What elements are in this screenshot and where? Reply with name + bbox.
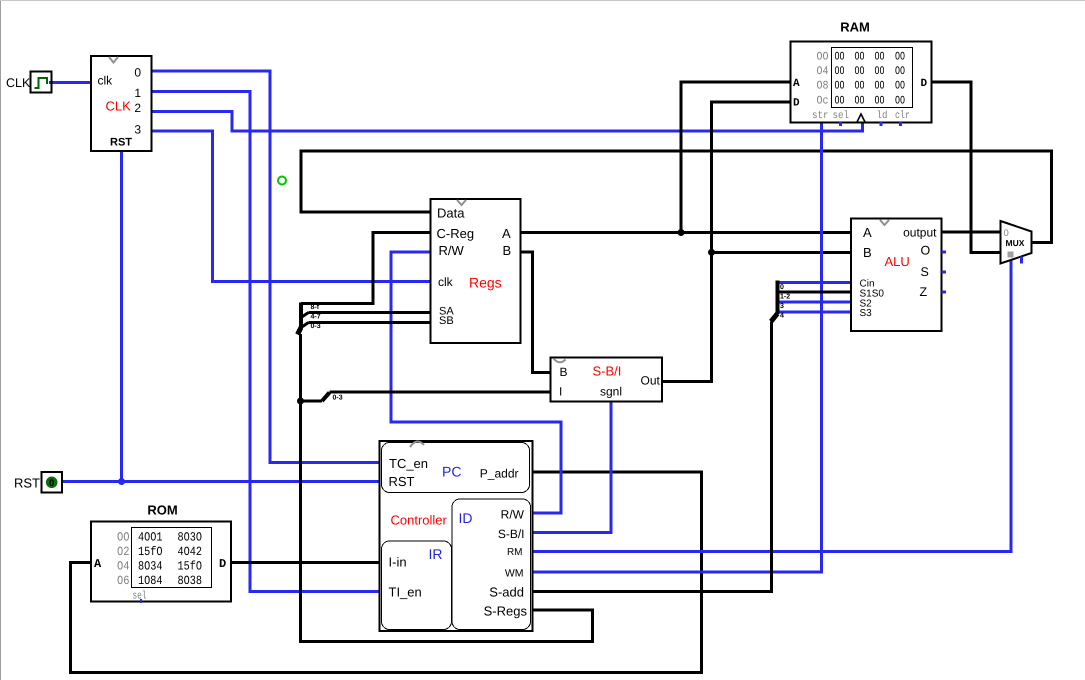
svg-text:A: A xyxy=(793,78,800,90)
wire ALU splitter branch 1-2 to ALU S1S0 xyxy=(778,291,852,294)
svg-text:0: 0 xyxy=(1004,228,1009,239)
ALU U-ALU xyxy=(851,219,946,332)
svg-text:A: A xyxy=(863,225,872,240)
svg-text:0: 0 xyxy=(134,66,141,80)
svg-text:OO: OO xyxy=(895,51,905,64)
ROM U-ROM xyxy=(91,503,231,604)
svg-text:OO: OO xyxy=(895,65,905,78)
svg-text:OO: OO xyxy=(835,80,845,93)
svg-text:Z: Z xyxy=(920,285,928,299)
svg-text:ID: ID xyxy=(459,510,473,526)
svg-text:O: O xyxy=(921,244,931,258)
wire splitter branch 4-7 to Regs SA xyxy=(309,311,431,314)
svg-text:Oc: Oc xyxy=(817,95,829,108)
input pin RST xyxy=(14,472,62,493)
svg-text:OO: OO xyxy=(855,95,865,108)
multiplexer MUX xyxy=(1001,221,1032,264)
wire CLK phase1 to Controller TI_en xyxy=(152,92,380,592)
svg-text:OO: OO xyxy=(875,80,885,93)
svg-text:P_addr: P_addr xyxy=(480,467,519,481)
wire Controller RM to MUX select xyxy=(533,260,1012,552)
RAM U-RAM xyxy=(791,20,932,127)
svg-text:RST: RST xyxy=(389,474,415,489)
clock source CLK xyxy=(6,72,52,93)
svg-text:0: 0 xyxy=(49,478,54,489)
canvas top border xyxy=(0,0,1085,2)
svg-text:A: A xyxy=(94,557,102,571)
svg-text:RAM: RAM xyxy=(840,20,870,35)
wire Regs A branch to RAM A xyxy=(681,82,791,233)
wire Controller R_W to Regs R_W xyxy=(391,252,561,513)
splitter S-Regs head xyxy=(298,303,321,335)
svg-text:OO: OO xyxy=(817,51,829,64)
svg-text:clr: clr xyxy=(895,110,910,122)
svg-text:OO: OO xyxy=(835,65,845,78)
svg-text:ROM: ROM xyxy=(147,503,177,518)
wire ALU splitter branch 3 to ALU S2 xyxy=(778,301,852,304)
svg-text:S3: S3 xyxy=(860,308,873,319)
svg-text:OO: OO xyxy=(895,95,905,108)
svg-text:PC: PC xyxy=(442,464,461,480)
wire CLK phase2 to RAM clock caret xyxy=(152,112,863,132)
svg-text:O4: O4 xyxy=(117,560,130,574)
svg-text:RST: RST xyxy=(14,476,40,491)
splitter ALU control head xyxy=(771,281,790,322)
svg-text:O4: O4 xyxy=(817,65,829,78)
svg-text:O6: O6 xyxy=(117,574,130,588)
wire Controller S-B_I to S-B/I sgnl xyxy=(533,402,612,533)
wire ALU output to MUX input 0 xyxy=(942,231,1001,234)
node junction S-B/I Out / ALU B xyxy=(708,249,715,256)
svg-text:A: A xyxy=(502,226,511,241)
svg-text:O2: O2 xyxy=(117,545,130,559)
svg-text:OO: OO xyxy=(835,51,845,64)
register file Regs xyxy=(431,199,521,343)
splitter2 tap head xyxy=(322,393,343,402)
wire splitter branch 8-f to Regs C-Reg xyxy=(301,233,431,304)
svg-text:O8: O8 xyxy=(817,80,829,93)
svg-text:clk: clk xyxy=(98,74,114,88)
svg-text:8O34: 8O34 xyxy=(138,560,163,574)
svg-text:S: S xyxy=(921,265,929,279)
svg-text:3: 3 xyxy=(134,123,141,137)
svg-text:B: B xyxy=(503,243,512,258)
svg-text:OO: OO xyxy=(855,65,865,78)
svg-text:S-B/I: S-B/I xyxy=(498,527,525,541)
svg-text:15fO: 15fO xyxy=(178,560,203,574)
svg-text:1-2: 1-2 xyxy=(780,294,790,301)
svg-text:S-add: S-add xyxy=(489,585,524,600)
svg-text:8-f: 8-f xyxy=(311,303,320,311)
svg-text:I-in: I-in xyxy=(389,555,407,570)
svg-text:1: 1 xyxy=(134,86,141,100)
wire CLK phase3 to Regs clk xyxy=(152,131,431,282)
wire ALU splitter branch 0 to ALU Cin xyxy=(778,281,852,284)
svg-text:0-3: 0-3 xyxy=(311,323,321,330)
svg-text:OO: OO xyxy=(117,531,130,545)
svg-text:RST: RST xyxy=(110,137,132,149)
svg-text:OO: OO xyxy=(835,95,845,108)
wire CLK phase0 to Controller TC_en xyxy=(152,71,380,463)
svg-text:OO: OO xyxy=(875,51,885,64)
svg-text:Out: Out xyxy=(641,374,661,388)
wire splitter branch 0-3 to Regs SB xyxy=(309,321,431,324)
wire Controller WM to RAM str xyxy=(533,122,822,572)
wire MUX output feedback to Regs Data xyxy=(301,151,1052,243)
canvas left border xyxy=(0,0,2,680)
wire Controller S-Regs to register-select splitter trunk xyxy=(301,334,593,642)
svg-text:C-Reg: C-Reg xyxy=(437,226,475,241)
wire CLK source to clk pin xyxy=(49,81,91,84)
svg-text:IR: IR xyxy=(429,546,443,562)
wire S-B/I Out to RAM D-in xyxy=(662,102,791,382)
node junction Regs A / RAM A xyxy=(678,229,685,236)
node junction splitter2 on trunk xyxy=(297,398,304,405)
svg-text:4: 4 xyxy=(780,313,784,320)
svg-text:B: B xyxy=(863,245,872,260)
svg-text:CLK: CLK xyxy=(106,99,132,114)
svg-text:S-Regs: S-Regs xyxy=(484,604,528,619)
wire Controller P_addr to ROM A xyxy=(71,472,702,673)
svg-text:OO: OO xyxy=(855,80,865,93)
svg-text:OO: OO xyxy=(895,80,905,93)
wire CLK RST pin down to RST net xyxy=(120,151,123,482)
svg-text:OO: OO xyxy=(875,65,885,78)
svg-text:Regs: Regs xyxy=(469,275,502,291)
wire ALU splitter branch 4 to ALU S3 xyxy=(778,311,852,314)
svg-text:Data: Data xyxy=(437,206,465,221)
svg-text:sgnl: sgnl xyxy=(600,385,622,399)
svg-text:MUX: MUX xyxy=(1006,238,1025,248)
svg-text:0-3: 0-3 xyxy=(333,395,343,402)
svg-text:I: I xyxy=(559,385,562,399)
node probe circle xyxy=(278,177,286,185)
svg-text:15fO: 15fO xyxy=(138,545,163,559)
clock divider U-CLK xyxy=(91,56,152,151)
svg-text:sel: sel xyxy=(133,591,147,603)
wire Regs B to S-B/I B xyxy=(521,252,551,373)
svg-text:R/W: R/W xyxy=(501,508,525,522)
svg-text:OO: OO xyxy=(875,95,885,108)
wire Controller S-add to ALU control splitter trunk xyxy=(533,322,772,592)
wire ROM D to Controller I-in xyxy=(231,561,380,564)
svg-text:TI_en: TI_en xyxy=(389,585,422,600)
sign extender S-B/I xyxy=(551,358,663,402)
wire S-B/I Out branch to ALU B xyxy=(712,251,852,254)
svg-text:3: 3 xyxy=(780,303,784,310)
svg-text:0: 0 xyxy=(780,284,784,291)
svg-text:D: D xyxy=(793,98,800,110)
svg-text:TC_en: TC_en xyxy=(389,456,428,471)
wire RST source to Controller RST xyxy=(62,480,380,483)
node RST junction xyxy=(118,478,125,485)
svg-text:4O42: 4O42 xyxy=(178,545,203,559)
svg-text:8O3O: 8O3O xyxy=(178,531,203,545)
svg-text:ALU: ALU xyxy=(885,254,910,269)
svg-text:8O38: 8O38 xyxy=(178,574,203,588)
wire splitter2 tap to S-B/I I xyxy=(301,400,323,403)
svg-text:1O84: 1O84 xyxy=(138,574,163,588)
svg-text:sel: sel xyxy=(833,110,850,122)
svg-text:str: str xyxy=(812,110,829,122)
controller U-Controller xyxy=(380,441,533,631)
svg-text:B: B xyxy=(560,365,568,379)
svg-text:D: D xyxy=(921,78,928,90)
wire RAM D-out to MUX input 1 xyxy=(932,82,1001,253)
svg-text:D: D xyxy=(219,557,226,571)
svg-text:CLK: CLK xyxy=(6,76,31,90)
svg-text:OO: OO xyxy=(855,51,865,64)
svg-text:4OO1: 4OO1 xyxy=(138,531,163,545)
svg-text:WM: WM xyxy=(505,568,524,580)
svg-text:4-7: 4-7 xyxy=(311,313,321,320)
svg-text:clk: clk xyxy=(438,275,454,289)
svg-text:RM: RM xyxy=(507,547,523,558)
svg-text:SB: SB xyxy=(439,315,454,327)
svg-text:Controller: Controller xyxy=(391,513,448,528)
svg-text:R/W: R/W xyxy=(439,243,465,258)
svg-text:2: 2 xyxy=(134,101,141,115)
svg-text:output: output xyxy=(903,226,937,240)
svg-text:S-B/I: S-B/I xyxy=(593,364,622,379)
svg-text:ld: ld xyxy=(877,110,888,122)
wire Regs A to ALU A xyxy=(521,231,852,234)
